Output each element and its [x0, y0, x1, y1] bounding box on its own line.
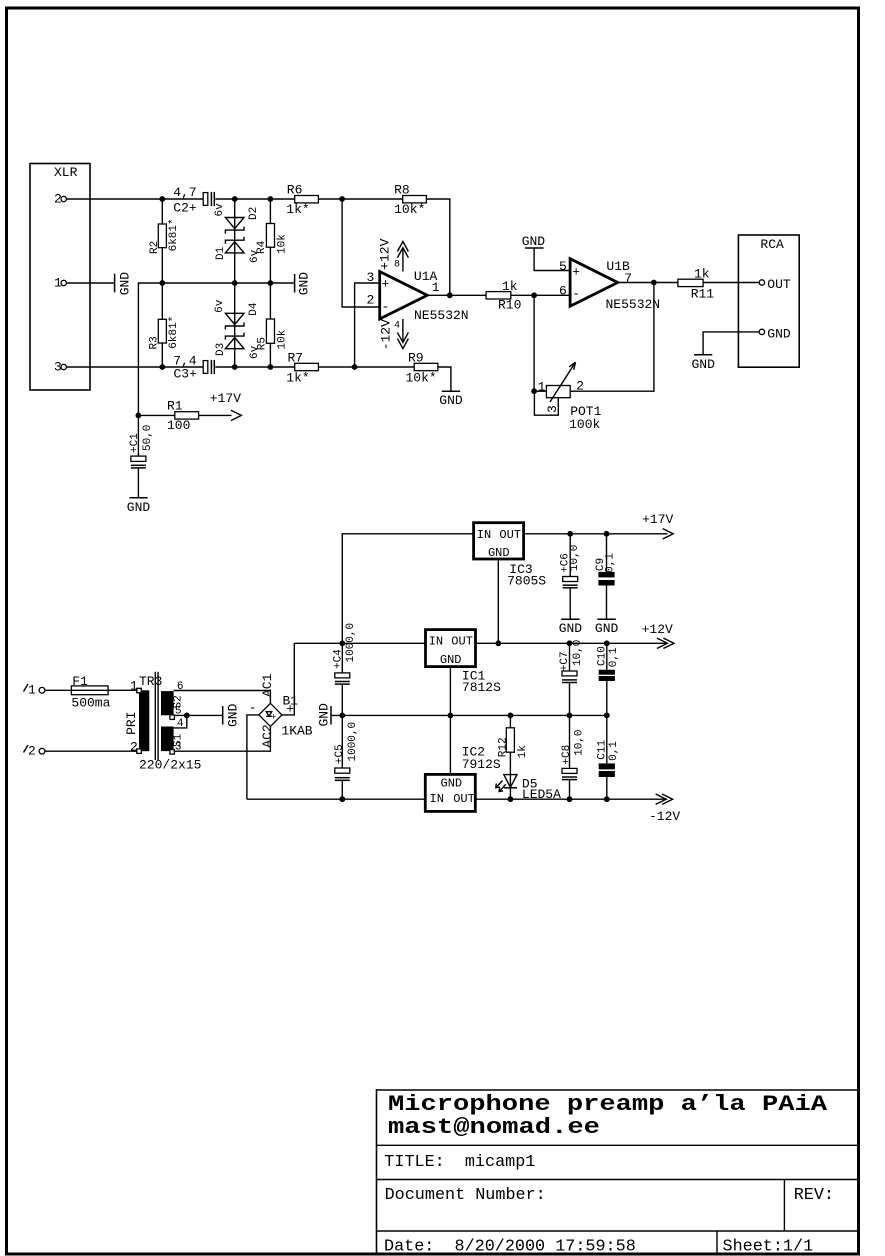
junction U1A output / R8 — [447, 292, 453, 298]
svg-text:2: 2 — [28, 744, 36, 759]
wire phantom feed — [138, 283, 162, 415]
svg-text:AC1: AC1 — [260, 673, 275, 697]
junction C9 top — [604, 531, 610, 537]
svg-text:6v: 6v — [214, 203, 226, 217]
svg-text:NE5532N: NE5532N — [414, 308, 469, 323]
ground at U1B pin 5 — [522, 234, 570, 271]
svg-text:+: + — [271, 713, 276, 723]
svg-text:10k*: 10k* — [406, 370, 437, 385]
wire R9 to ground — [438, 367, 451, 391]
wire R11 to RCA OUT — [703, 282, 759, 284]
XLR pin 2 — [54, 192, 66, 207]
junction bottom rail / zener column — [232, 364, 238, 370]
svg-text:GND: GND — [488, 546, 510, 560]
svg-text:GND: GND — [296, 272, 311, 296]
resistor R10 — [486, 279, 521, 312]
svg-text:PRI: PRI — [124, 711, 139, 734]
junction C4 bottom / C5 top — [339, 713, 345, 719]
svg-text:OUT: OUT — [499, 528, 521, 542]
wire center tap to ground — [174, 714, 223, 716]
svg-text:D3: D3 — [215, 343, 227, 356]
wire U1B output — [618, 282, 678, 284]
svg-text:R12: R12 — [498, 737, 510, 757]
terminal ~2 — [24, 744, 45, 759]
junction U1B output — [651, 280, 657, 286]
capacitor C11 — [597, 715, 620, 799]
wire IC1 GND stem — [449, 667, 451, 716]
regulator IC1 — [426, 630, 502, 695]
svg-text:mast@nomad.ee: mast@nomad.ee — [388, 1115, 600, 1140]
power +12V arrow — [642, 622, 674, 649]
svg-text:+C4: +C4 — [332, 649, 344, 669]
junction C6 top — [567, 531, 573, 537]
svg-text:R8: R8 — [394, 183, 410, 198]
svg-text:1000,0: 1000,0 — [345, 623, 357, 663]
wire terminal1 to F1 — [45, 689, 72, 691]
svg-text:8: 8 — [394, 260, 400, 271]
terminal ~1 — [24, 683, 45, 698]
wire raw plus rail to IC1 IN — [294, 642, 425, 644]
wire pin6 down to pot pin1 — [533, 295, 535, 391]
svg-text:R2: R2 — [149, 241, 161, 254]
svg-text:R6: R6 — [287, 183, 303, 198]
svg-text:0,1: 0,1 — [608, 647, 620, 667]
svg-text:10,0: 10,0 — [569, 545, 581, 571]
wire R6 to R8 — [318, 198, 402, 200]
svg-text:R11: R11 — [691, 287, 715, 302]
svg-text:Sheet:1/1: Sheet:1/1 — [723, 1238, 814, 1256]
connector XLR box — [30, 164, 90, 391]
svg-text:D2: D2 — [248, 207, 260, 220]
svg-text:IN: IN — [430, 792, 444, 806]
capacitor C9 — [595, 534, 617, 619]
capacitor C6 — [560, 534, 581, 619]
junction C5 bottom — [339, 796, 345, 802]
zener D2 — [214, 203, 260, 234]
junction IC1/IC2 GND — [448, 713, 454, 719]
wire U1A output — [427, 294, 486, 296]
regulator IC2 — [425, 744, 501, 811]
wire F1 to TR3 pin1 — [108, 689, 139, 691]
svg-text:3: 3 — [545, 405, 560, 413]
svg-text:D4: D4 — [248, 302, 260, 316]
junction IC3 GND / +12 rail — [495, 640, 501, 646]
junction pot pin1 — [531, 388, 537, 394]
svg-text:GND: GND — [439, 393, 463, 408]
ground below C9 — [595, 619, 619, 636]
svg-text:50,0: 50,0 — [142, 425, 154, 451]
power -12V arrow at U1A pin 4 — [379, 319, 409, 350]
svg-text:1: 1 — [538, 380, 546, 395]
svg-text:C3+: C3+ — [174, 367, 198, 382]
wire C2 to R6 — [215, 198, 294, 200]
svg-text:OUT: OUT — [453, 792, 475, 806]
svg-text:Date: 8/20/2000 17:59:58: Date: 8/20/2000 17:59:58 — [384, 1238, 636, 1256]
svg-text:R10: R10 — [498, 298, 521, 313]
svg-text:7: 7 — [624, 271, 632, 286]
wire IC2 OUT -12V rail — [475, 798, 667, 800]
svg-text:GND: GND — [440, 653, 462, 667]
resistor R3 — [148, 283, 180, 367]
ground rail symbol — [317, 703, 332, 727]
wire R10 to U1B pin 6 — [511, 294, 570, 296]
wire inverting input — [342, 199, 379, 307]
capacitor C1 — [129, 415, 154, 497]
resistor R6 — [286, 183, 318, 217]
wire IC3 GND stem — [497, 559, 499, 643]
resistor R7 — [286, 350, 318, 385]
junction C7 top — [567, 640, 573, 646]
junction D5 bottom — [508, 796, 514, 802]
wire pin3 to C3 — [66, 366, 203, 368]
capacitor C3 — [173, 354, 214, 382]
junction center tap — [184, 713, 190, 719]
wire bridge + up to raw rail — [282, 643, 294, 715]
wire mid rail — [162, 282, 294, 284]
svg-text:IN: IN — [429, 635, 443, 649]
svg-text:6k81*: 6k81* — [168, 316, 180, 349]
title block frame — [377, 1089, 858, 1254]
svg-text:+12V: +12V — [642, 622, 673, 637]
svg-text:GND: GND — [522, 234, 546, 249]
junction mid rail / R4R5 — [268, 280, 274, 286]
resistor R1 — [167, 398, 199, 433]
svg-text:100k: 100k — [569, 417, 600, 432]
svg-text:GND: GND — [118, 272, 133, 296]
junction pin2/R2 — [159, 196, 165, 202]
svg-text:TITLE: micamp1: TITLE: micamp1 — [384, 1153, 535, 1172]
svg-text:GND: GND — [691, 357, 715, 372]
wire IC2 GND stem — [449, 715, 451, 774]
power +17V arrow — [210, 391, 242, 420]
junction pin3/R3 — [159, 364, 165, 370]
junction C10 bottom / C11 top — [604, 713, 610, 719]
wire R1 to +17V — [199, 414, 232, 416]
svg-text:2: 2 — [366, 292, 374, 307]
wire R7 to R9 — [318, 366, 414, 368]
ground center tap — [223, 703, 241, 727]
wire zener column top — [234, 199, 236, 283]
svg-text:10k: 10k — [277, 329, 289, 349]
wire feedback to pot pin2 — [570, 283, 654, 392]
power +12V arrow at U1A pin 8 — [378, 238, 409, 271]
svg-text:2: 2 — [576, 379, 584, 394]
capacitor C10 — [597, 643, 620, 715]
svg-text:4: 4 — [394, 321, 400, 332]
svg-text:-: - — [249, 701, 257, 716]
wire IC3 OUT +17V rail — [524, 533, 668, 535]
junction phantom R1/C1 node — [136, 413, 142, 419]
wire pin4 to center tap — [174, 715, 187, 728]
svg-text:5: 5 — [559, 259, 567, 274]
svg-text:7912S: 7912S — [462, 757, 501, 772]
svg-text:1k: 1k — [694, 267, 710, 282]
power +17V arrow — [642, 512, 673, 539]
resistor R5 — [257, 283, 289, 367]
ground below R9 — [439, 391, 463, 408]
svg-text:-: - — [382, 300, 390, 315]
junction top rail / zener column — [232, 196, 238, 202]
junction noninv / bottom rail — [352, 364, 358, 370]
svg-text:+17V: +17V — [210, 391, 241, 406]
XLR pin 3 — [54, 360, 66, 375]
capacitor C4 — [332, 623, 357, 716]
svg-text:3: 3 — [366, 270, 374, 285]
svg-text:+: + — [572, 265, 580, 280]
resistor R12 — [498, 715, 529, 799]
junction top rail / R4 — [268, 196, 274, 202]
op-amp U1B — [559, 259, 660, 312]
svg-text:0,1: 0,1 — [604, 553, 616, 573]
junction C11 bottom — [604, 796, 610, 802]
transformer TR3 — [124, 672, 202, 773]
ground below C6 — [559, 619, 583, 636]
fuse F1 — [71, 674, 110, 711]
wire TR3 pin6 to bridge AC1 — [174, 691, 271, 704]
wire bridge - down to raw minus rail — [247, 715, 259, 799]
svg-text:+C8: +C8 — [561, 745, 573, 765]
svg-text:7812S: 7812S — [462, 680, 501, 695]
svg-text:+C5: +C5 — [334, 744, 346, 764]
svg-text:-: - — [572, 287, 580, 302]
capacitor C8 — [561, 715, 585, 799]
svg-text:1: 1 — [28, 683, 36, 698]
svg-text:4,7: 4,7 — [173, 185, 196, 200]
bridge rectifier B1 — [249, 694, 313, 739]
junction bottom rail / R5 — [268, 364, 274, 370]
svg-text:1k*: 1k* — [286, 202, 309, 217]
svg-text:6k81*: 6k81* — [168, 218, 180, 251]
wire IC3 IN feed — [342, 534, 473, 644]
svg-text:+17V: +17V — [642, 512, 673, 527]
svg-text:-12V: -12V — [379, 319, 394, 350]
svg-text:F1: F1 — [72, 674, 88, 689]
svg-text:GND: GND — [226, 703, 241, 727]
svg-text:TR3: TR3 — [139, 674, 162, 689]
resistor R11 — [678, 267, 714, 302]
svg-text:Microphone preamp a’la PAiA: Microphone preamp a’la PAiA — [388, 1092, 828, 1117]
wire R8 to output node — [426, 199, 449, 295]
svg-text:6v: 6v — [214, 299, 226, 313]
svg-text:10,0: 10,0 — [573, 729, 585, 755]
RCA pin OUT — [759, 277, 791, 292]
zener D4 — [214, 299, 260, 329]
svg-text:C2+: C2+ — [173, 201, 197, 216]
svg-text:1: 1 — [130, 679, 138, 694]
capacitor C2 — [173, 185, 214, 215]
svg-text:1: 1 — [432, 280, 440, 295]
wire minus rail to IC2 IN — [247, 798, 425, 800]
potentiometer POT1 — [534, 362, 602, 432]
svg-text:GND: GND — [317, 703, 332, 727]
svg-text:10,0: 10,0 — [572, 640, 584, 666]
svg-text:IN: IN — [477, 528, 491, 542]
svg-text:R4: R4 — [256, 240, 268, 254]
ground RCA — [691, 355, 715, 372]
svg-text:GND: GND — [595, 621, 619, 636]
svg-text:6: 6 — [559, 283, 567, 298]
junction R12 top — [508, 713, 514, 719]
svg-text:1KAB: 1KAB — [281, 724, 312, 739]
svg-text:OUT: OUT — [767, 277, 791, 292]
wire RCA GND — [703, 332, 759, 355]
svg-text:NE5532N: NE5532N — [606, 297, 661, 312]
svg-text:C10: C10 — [597, 646, 609, 666]
junction mid rail / zener column — [232, 280, 238, 286]
resistor R8 — [394, 183, 426, 217]
junction C4 / IC3 feed — [339, 640, 345, 646]
svg-text:R7: R7 — [288, 350, 304, 365]
svg-text:GND: GND — [767, 326, 791, 341]
svg-text:7805S: 7805S — [507, 573, 546, 588]
svg-text:+C7: +C7 — [559, 651, 571, 671]
svg-text:1k: 1k — [502, 279, 518, 294]
wire ground rail — [331, 714, 607, 716]
svg-text:Document Number:: Document Number: — [385, 1186, 546, 1205]
junction C8 bottom — [567, 796, 573, 802]
svg-text:100: 100 — [167, 418, 190, 433]
zener D1 — [215, 237, 261, 263]
wire zener column mid — [234, 283, 236, 367]
wire C3 to R7 — [215, 366, 294, 368]
svg-text:GND: GND — [127, 500, 151, 515]
LED D5 — [496, 775, 561, 802]
svg-text:D1: D1 — [215, 246, 227, 260]
wire IC1 OUT +12V rail — [476, 642, 668, 644]
wire pin2 to C2 — [66, 198, 203, 200]
svg-text:-12V: -12V — [649, 809, 680, 824]
svg-text:R9: R9 — [408, 350, 424, 365]
regulator IC3 — [474, 523, 547, 589]
wire terminal2 to TR3 pin2 — [45, 750, 139, 752]
svg-text:220/2x15: 220/2x15 — [139, 758, 201, 773]
svg-text:1k*: 1k* — [286, 370, 309, 385]
resistor R4 — [256, 199, 288, 283]
svg-text:+12V: +12V — [378, 238, 393, 269]
wire TR3 pin3 to bridge AC2 — [174, 727, 271, 752]
svg-text:C11: C11 — [597, 739, 609, 759]
svg-text:2: 2 — [130, 739, 138, 754]
junction R2/R3/phantom — [159, 280, 165, 286]
svg-text:10k: 10k — [276, 234, 288, 254]
power -12V arrow — [649, 794, 680, 824]
svg-text:1000,0: 1000,0 — [347, 722, 359, 762]
svg-text:+C1: +C1 — [129, 433, 141, 453]
svg-text:AC2: AC2 — [260, 724, 275, 747]
ground below C1 — [127, 498, 151, 515]
resistor R2 — [149, 199, 180, 283]
junction C10 top — [604, 640, 610, 646]
svg-text:RCA: RCA — [760, 237, 784, 252]
resistor R9 — [406, 350, 438, 385]
capacitor C7 — [559, 640, 584, 716]
svg-text:R1: R1 — [167, 398, 183, 413]
zener D3 — [215, 333, 261, 359]
junction U1B pin6 — [531, 292, 537, 298]
svg-text:500ma: 500ma — [71, 696, 110, 711]
svg-text:REV:: REV: — [794, 1186, 834, 1205]
capacitor C5 — [334, 715, 359, 799]
svg-text:R3: R3 — [148, 336, 160, 349]
svg-text:0,1: 0,1 — [608, 741, 620, 761]
svg-text:1k: 1k — [517, 745, 529, 759]
op-amp U1A — [366, 269, 468, 323]
svg-text:R5: R5 — [257, 337, 269, 350]
svg-text:OUT: OUT — [451, 635, 473, 649]
svg-text:GND: GND — [559, 621, 583, 636]
junction C7 bottom / C8 top — [567, 713, 573, 719]
XLR pin 1 — [54, 276, 66, 291]
svg-text:+: + — [382, 277, 390, 292]
svg-text:LED5A: LED5A — [522, 787, 561, 802]
ground at XLR pin1 — [115, 272, 133, 296]
ground mid rail — [295, 272, 312, 296]
svg-text:GND: GND — [441, 776, 463, 790]
wire noninverting input — [355, 283, 380, 367]
junction summing node — [339, 196, 345, 202]
svg-text:10k*: 10k* — [394, 202, 425, 217]
wire pin1 to GND — [66, 282, 114, 284]
RCA pin GND — [759, 326, 791, 341]
connector RCA box — [738, 235, 799, 367]
wire node to R1 — [138, 414, 174, 416]
svg-text:XLR: XLR — [54, 165, 78, 180]
